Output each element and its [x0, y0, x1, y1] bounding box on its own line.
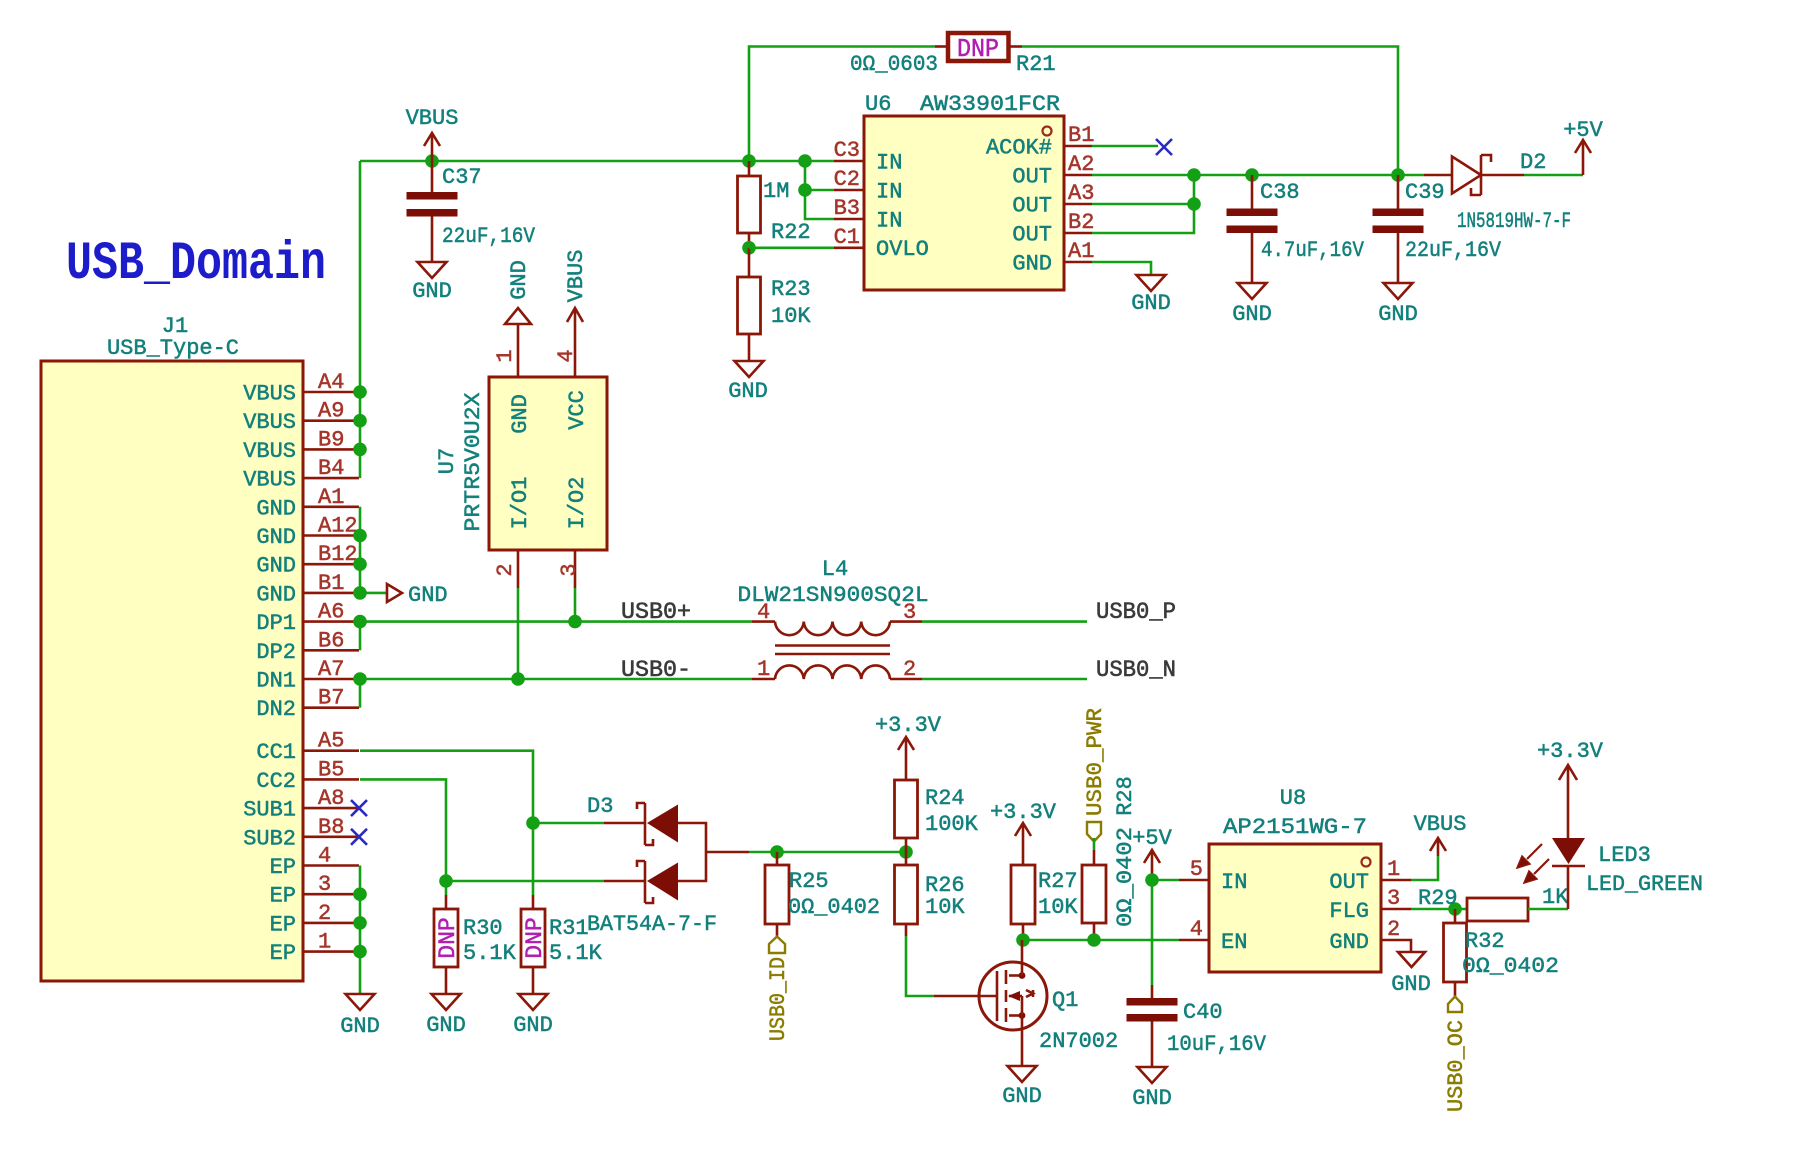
hierarchical label USB0_ID	[769, 937, 785, 954]
svg-text:4.7uF,16V: 4.7uF,16V	[1261, 238, 1365, 263]
svg-text:FLG: FLG	[1329, 899, 1369, 924]
svg-text:EP: EP	[270, 884, 296, 909]
svg-text:GND: GND	[508, 394, 533, 434]
J1 pin B8 (SUB2)	[303, 835, 359, 838]
ground R30	[432, 994, 461, 1010]
svg-text:B2: B2	[1068, 210, 1094, 235]
junction GND at A12	[353, 529, 367, 543]
svg-text:22uF,16V: 22uF,16V	[1405, 238, 1502, 263]
svg-text:GND: GND	[256, 582, 296, 607]
resistor R32 0ohm 0402	[1444, 909, 1560, 997]
D3 common anode	[678, 823, 706, 881]
power flag VBUS at U8 OUT	[1437, 838, 1440, 856]
ground R31	[519, 994, 548, 1010]
wire USB0_N	[922, 678, 1087, 681]
U8 pin 4 EN	[1179, 939, 1209, 942]
D3 bottom diode	[604, 880, 645, 883]
svg-text:+3.3V: +3.3V	[1537, 739, 1604, 764]
power flag VBUS at U7 pin4	[567, 308, 583, 322]
resistor R27 10K	[1011, 865, 1078, 940]
svg-text:SUB2: SUB2	[243, 826, 296, 851]
svg-text:BAT54A-7-F: BAT54A-7-F	[587, 912, 717, 937]
svg-text:C38: C38	[1260, 180, 1300, 205]
wire OUT B2	[1092, 175, 1194, 233]
svg-text:CC2: CC2	[256, 769, 296, 794]
J1 pin B4 (VBUS)	[303, 477, 359, 480]
L4 pin 3	[890, 620, 922, 623]
J1 pin A5 (CC1)	[303, 749, 359, 752]
power flag +3.3V at R27	[1022, 823, 1025, 865]
junction OVLO	[742, 241, 756, 255]
svg-text:B4: B4	[318, 456, 344, 481]
wire OUT bus	[1092, 174, 1424, 177]
svg-text:10K: 10K	[925, 895, 965, 920]
svg-text:DN2: DN2	[256, 697, 296, 722]
svg-text:4: 4	[318, 844, 331, 869]
junction CC2 branch	[439, 874, 453, 888]
wire OUT A3	[1092, 203, 1194, 206]
svg-text:GND: GND	[1391, 972, 1431, 997]
diode D2 1N5819HW-7-F	[1424, 150, 1571, 234]
svg-text:3: 3	[1387, 886, 1400, 911]
wire D3 common to R24/R26	[749, 851, 906, 854]
U6 pin A1 GND	[1064, 261, 1092, 264]
svg-text:R25: R25	[789, 869, 829, 894]
wire ACOK# to no-connect	[1092, 145, 1158, 148]
LED LED3 LED_GREEN	[1517, 767, 1703, 909]
wire IN C2/B3 feed	[805, 161, 834, 219]
svg-text:IN: IN	[876, 180, 902, 205]
wire OVLO	[749, 247, 834, 250]
U7 pin 2 I/O1	[517, 550, 520, 588]
svg-text:GND: GND	[412, 279, 452, 304]
wire to +5V	[1524, 174, 1583, 177]
svg-text:R27: R27	[1038, 869, 1078, 894]
hierarchical label USB0_PWR	[1087, 822, 1101, 842]
junction R24/R26	[899, 845, 913, 859]
svg-text:4: 4	[1190, 917, 1203, 942]
svg-text:AP2151WG-7: AP2151WG-7	[1223, 815, 1367, 840]
svg-text:OUT: OUT	[1012, 194, 1052, 219]
connector J1 USB_Type-C	[41, 314, 359, 981]
wire FLG	[1411, 908, 1467, 911]
wire OUT to VBUS	[1411, 856, 1438, 880]
U7 pin 4 VCC	[574, 308, 577, 377]
wire CC1	[360, 751, 533, 895]
wire GND vertical J1 pins A1/A12/B12/B1	[359, 507, 362, 593]
junction OUT C38	[1245, 168, 1259, 182]
svg-text:B1: B1	[318, 571, 344, 596]
svg-text:VBUS: VBUS	[406, 106, 459, 131]
wire R26 to Q1 gate	[906, 936, 934, 996]
power flag +5V at D2	[1582, 140, 1585, 175]
junction USB0+ at U7 pin3	[568, 615, 582, 629]
wire CC2	[360, 779, 446, 895]
wire USB0_P	[922, 620, 1087, 623]
svg-text:USB0+: USB0+	[621, 599, 691, 626]
resistor R22 1M	[738, 161, 811, 248]
svg-text:GND: GND	[426, 1013, 466, 1038]
svg-text:D3: D3	[587, 794, 613, 819]
svg-text:B7: B7	[318, 686, 344, 711]
svg-text:DP1: DP1	[256, 611, 296, 636]
svg-text:SUB1: SUB1	[243, 798, 296, 823]
svg-text:5.1K: 5.1K	[463, 941, 517, 966]
svg-text:5: 5	[1190, 857, 1203, 882]
ground C40	[1138, 1067, 1167, 1083]
wire VBUS horizontal to U6	[360, 160, 834, 163]
U8 pin 5 IN	[1179, 879, 1209, 882]
svg-text:GND: GND	[340, 1014, 380, 1039]
no-connect X at ACOK#	[1156, 139, 1172, 155]
ground R23	[735, 361, 764, 377]
J1 pin B9 (VBUS)	[303, 448, 359, 451]
wire DP1/DP2 join	[359, 622, 362, 651]
svg-text:USB0_N: USB0_N	[1096, 657, 1176, 684]
junction EP1	[353, 945, 367, 959]
svg-text:R31: R31	[549, 916, 589, 941]
svg-text:CC1: CC1	[256, 740, 296, 765]
hierarchical label USB0_OC	[1448, 997, 1462, 1013]
J1 pin B5 (CC2)	[303, 778, 359, 781]
svg-text:DN1: DN1	[256, 669, 296, 694]
svg-text:EP: EP	[270, 941, 296, 966]
junction +5V/IN	[1145, 873, 1159, 887]
svg-text:0Ω_0402: 0Ω_0402	[788, 895, 880, 920]
svg-text:VBUS: VBUS	[243, 439, 296, 464]
L4 winding top	[775, 622, 890, 636]
svg-text:VBUS: VBUS	[243, 410, 296, 435]
junction OUT A3	[1187, 197, 1201, 211]
svg-text:EP: EP	[270, 912, 296, 937]
ground J1 EP	[346, 994, 375, 1010]
wire USB0+	[360, 620, 752, 623]
J1 pin 4 (EP)	[303, 864, 359, 867]
wire CC2 to D3 bottom	[446, 880, 604, 883]
svg-text:R32: R32	[1465, 929, 1505, 954]
svg-text:GND: GND	[1002, 1084, 1042, 1109]
svg-text:+5V: +5V	[1563, 118, 1603, 143]
svg-text:GND: GND	[1329, 930, 1369, 955]
svg-text:U8: U8	[1280, 786, 1306, 811]
junction EP3	[353, 887, 367, 901]
U6 pin B3 IN	[834, 218, 864, 221]
svg-text:USB0_OC: USB0_OC	[1444, 1020, 1469, 1112]
junction loop left	[742, 154, 756, 168]
svg-text:R30: R30	[463, 916, 503, 941]
svg-text:0Ω_0603: 0Ω_0603	[850, 52, 938, 77]
J1 pin 2 (EP)	[303, 922, 359, 925]
svg-text:I/O2: I/O2	[565, 477, 590, 530]
svg-text:A1: A1	[1068, 239, 1094, 264]
no-connect X at SUB1 A8	[351, 800, 367, 816]
wire CC1 to D3 top	[533, 822, 604, 825]
svg-text:GND: GND	[1378, 302, 1418, 327]
J1 pin A12 (GND)	[303, 534, 359, 537]
svg-text:10K: 10K	[1038, 895, 1078, 920]
svg-text:A2: A2	[1068, 152, 1094, 177]
svg-text:I/O1: I/O1	[508, 477, 533, 530]
power flag +5V	[1151, 850, 1154, 877]
svg-text:B3: B3	[834, 196, 860, 221]
U6 pin C3 IN	[834, 160, 864, 163]
svg-text:A4: A4	[318, 370, 344, 395]
J1 pin 3 (EP)	[303, 893, 359, 896]
svg-text:VCC: VCC	[565, 390, 590, 430]
power flag +3.3V at LED3	[1559, 765, 1577, 780]
resistor R26 10K	[895, 852, 966, 936]
svg-text:R24: R24	[925, 786, 965, 811]
resistor R23 10K	[738, 248, 812, 361]
wire USB0-	[360, 678, 752, 681]
svg-text:2: 2	[493, 563, 518, 576]
svg-text:GND: GND	[1131, 291, 1171, 316]
wire U6 GND pin to ground	[1092, 262, 1151, 275]
svg-text:VBUS: VBUS	[564, 250, 589, 303]
wire EP pins chain	[359, 866, 362, 995]
dual diode D3 BAT54A-7-F	[587, 794, 749, 937]
svg-text:1N5819HW-7-F: 1N5819HW-7-F	[1457, 209, 1571, 234]
U6 pin A2 OUT	[1064, 174, 1092, 177]
svg-text:U6: U6	[865, 92, 891, 117]
svg-text:DNP: DNP	[435, 917, 461, 958]
svg-text:VBUS: VBUS	[243, 468, 296, 493]
GND net flag at J1.B1	[387, 584, 402, 602]
svg-text:USB0_PWR: USB0_PWR	[1083, 708, 1108, 816]
svg-text:1K: 1K	[1542, 885, 1569, 910]
power flag GND at U7 pin1	[505, 308, 531, 324]
junction OUT A2/A3	[1187, 168, 1201, 182]
ground C38	[1238, 283, 1267, 299]
svg-text:+3.3V: +3.3V	[990, 800, 1057, 825]
svg-text:AW33901FCR: AW33901FCR	[920, 92, 1060, 117]
svg-text:DNP: DNP	[522, 917, 548, 958]
svg-text:10K: 10K	[771, 304, 811, 329]
junction R27/Q1	[1016, 933, 1030, 947]
svg-text:DNP: DNP	[957, 34, 999, 64]
svg-text:A5: A5	[318, 729, 344, 754]
svg-text:4: 4	[757, 600, 770, 625]
ground U6	[1137, 275, 1166, 291]
resistor R25 0ohm 0402	[765, 852, 880, 937]
U6 pin A3 OUT	[1064, 203, 1092, 206]
wire +5V to IN and C40	[1151, 877, 1154, 985]
svg-text:1: 1	[1387, 857, 1400, 882]
svg-text:L4: L4	[822, 557, 848, 582]
svg-text:B12: B12	[318, 542, 358, 567]
svg-text:DP2: DP2	[256, 640, 296, 665]
svg-text:22uF,16V: 22uF,16V	[442, 224, 536, 249]
J1 pin A6 (DP1)	[303, 620, 359, 623]
junction CC1 branch	[526, 816, 540, 830]
L4 pin 4	[752, 620, 775, 623]
svg-text:USB_Type-C: USB_Type-C	[107, 336, 239, 361]
svg-text:A6: A6	[318, 600, 344, 625]
IC U7 PRTR5V0U2X	[435, 308, 607, 588]
junction at C3 wire	[798, 154, 812, 168]
junction VBUS at A4	[353, 385, 367, 399]
svg-text:1: 1	[318, 930, 331, 955]
svg-text:R28: R28	[1113, 776, 1138, 816]
power flag +3.3V at R24	[905, 737, 908, 780]
svg-text:R29: R29	[1418, 886, 1458, 911]
resistor R21 0ohm 0603 DNP	[850, 33, 1056, 77]
svg-text:B8: B8	[318, 815, 344, 840]
L4 pin 1	[752, 678, 775, 681]
J1 pin B7 (DN2)	[303, 706, 359, 709]
junction GND at B1	[353, 586, 367, 600]
junction DN at A7	[353, 672, 367, 686]
J1 pin A1 (GND)	[303, 505, 359, 508]
svg-text:VBUS: VBUS	[1414, 812, 1467, 837]
capacitor C39 22uF	[1373, 175, 1502, 283]
U6 pin C2 IN	[834, 189, 864, 192]
ground C37	[418, 262, 447, 278]
wire DN1/DN2 join	[359, 679, 362, 708]
J1 pin B12 (GND)	[303, 563, 359, 566]
svg-text:+5V: +5V	[1132, 826, 1172, 851]
svg-text:10uF,16V: 10uF,16V	[1167, 1032, 1267, 1057]
svg-text:D2: D2	[1520, 150, 1546, 175]
svg-text:R22: R22	[771, 220, 811, 245]
U8 pin 1 OUT	[1381, 879, 1411, 882]
svg-text:LED_GREEN: LED_GREEN	[1586, 872, 1703, 897]
svg-text:1: 1	[493, 349, 518, 362]
wire U7 pin3 to USB0+	[574, 588, 577, 622]
LED3 emission arrows	[1517, 844, 1549, 883]
svg-text:3: 3	[318, 872, 331, 897]
transistor Q1 2N7002	[934, 940, 1118, 1066]
J1 pin B1 (GND)	[303, 592, 359, 595]
svg-text:GND: GND	[513, 1013, 553, 1038]
svg-text:GND: GND	[408, 583, 448, 608]
svg-text:OVLO: OVLO	[876, 237, 929, 262]
svg-text:C40: C40	[1183, 1000, 1223, 1025]
svg-text:A12: A12	[318, 514, 358, 539]
junction R25	[770, 845, 784, 859]
svg-text:2: 2	[1387, 917, 1400, 942]
svg-text:VBUS: VBUS	[243, 382, 296, 407]
svg-text:A8: A8	[318, 786, 344, 811]
J1 pin A8 (SUB1)	[303, 807, 359, 810]
J1 pin B6 (DP2)	[303, 649, 359, 652]
svg-text:A9: A9	[318, 399, 344, 424]
svg-text:OUT: OUT	[1012, 223, 1052, 248]
svg-text:B1: B1	[1068, 123, 1094, 148]
junction GND at B12	[353, 557, 367, 571]
L4 pin 2	[890, 678, 922, 681]
svg-text:A7: A7	[318, 657, 344, 682]
svg-text:EN: EN	[1221, 930, 1247, 955]
ground Q1	[1008, 1066, 1037, 1082]
svg-text:C2: C2	[834, 167, 860, 192]
svg-text:5.1K: 5.1K	[549, 941, 603, 966]
svg-text:1M: 1M	[763, 179, 789, 204]
svg-text:USB_Domain: USB_Domain	[66, 234, 326, 295]
junction FLG/R32	[1448, 902, 1462, 916]
resistor R24 100K	[895, 780, 979, 852]
svg-text:1: 1	[757, 657, 770, 682]
svg-text:USB0-: USB0-	[621, 657, 691, 684]
svg-text:2: 2	[318, 901, 331, 926]
svg-text:IN: IN	[876, 209, 902, 234]
U6 pin C1 OVLO	[834, 247, 864, 250]
svg-text:B5: B5	[318, 757, 344, 782]
U6 pin B1 ACOK#	[1064, 145, 1092, 148]
svg-text:OUT: OUT	[1012, 165, 1052, 190]
svg-text:GND: GND	[256, 554, 296, 579]
capacitor C38 4.7uF	[1227, 175, 1365, 283]
svg-text:A1: A1	[318, 485, 344, 510]
IC U6 AW33901FCR	[834, 92, 1095, 290]
capacitor C40 10uF	[1127, 985, 1267, 1067]
svg-text:GND: GND	[507, 260, 532, 300]
resistor R29 1K	[1418, 885, 1569, 921]
U6 pin B2 OUT	[1064, 232, 1092, 235]
junction DP at A6	[353, 615, 367, 629]
J1 pin A4 (VBUS)	[303, 391, 359, 394]
svg-text:IN: IN	[1221, 870, 1247, 895]
U8 pin 2 GND	[1381, 940, 1411, 952]
svg-text:GND: GND	[728, 379, 768, 404]
ground U8	[1398, 952, 1425, 967]
IC U8 AP2151WG-7	[1179, 786, 1411, 972]
ground C39	[1384, 283, 1413, 299]
svg-text:IN: IN	[876, 151, 902, 176]
wire VBUS vertical J1 pins A4/A9/B9/B4	[359, 161, 362, 478]
svg-text:GND: GND	[256, 496, 296, 521]
L4 core	[775, 644, 890, 647]
svg-text:0Ω_0402: 0Ω_0402	[1462, 954, 1559, 979]
wire U7 pin2 to USB0-	[517, 588, 520, 679]
junction at C2 wire	[798, 183, 812, 197]
capacitor C37	[407, 161, 536, 262]
svg-text:GND: GND	[1132, 1086, 1172, 1111]
resistor R28 0ohm 0402	[1082, 776, 1138, 940]
svg-text:+3.3V: +3.3V	[875, 713, 942, 738]
J1 pin A9 (VBUS)	[303, 419, 359, 422]
svg-text:LED3: LED3	[1598, 843, 1651, 868]
svg-text:R21: R21	[1016, 52, 1056, 77]
L4 winding bottom	[775, 665, 890, 679]
wire R21 bypass loop	[749, 47, 935, 162]
svg-text:2N7002: 2N7002	[1039, 1029, 1118, 1054]
U7 pin 3 I/O2	[574, 550, 577, 588]
svg-text:USB0_P: USB0_P	[1096, 599, 1176, 626]
svg-text:C39: C39	[1405, 180, 1445, 205]
wire EN net	[1023, 939, 1179, 942]
svg-text:GND: GND	[1012, 252, 1052, 277]
junction VBUS at A9	[353, 414, 367, 428]
svg-text:3: 3	[557, 563, 582, 576]
svg-text:B9: B9	[318, 427, 344, 452]
U8 pin 3 FLG	[1381, 908, 1411, 911]
svg-text:EP: EP	[270, 855, 296, 880]
resistor R31 5.1K DNP	[521, 895, 603, 994]
svg-text:GND: GND	[1232, 302, 1272, 327]
svg-text:USB0_ID: USB0_ID	[766, 957, 791, 1041]
resistor R30 5.1K DNP	[434, 895, 517, 994]
power flag VBUS at C37	[431, 133, 434, 161]
svg-text:2: 2	[903, 657, 916, 682]
junction OUT C39	[1391, 168, 1405, 182]
svg-text:PRTR5V0U2X: PRTR5V0U2X	[461, 393, 486, 532]
svg-text:4: 4	[554, 349, 579, 362]
svg-text:3: 3	[903, 600, 916, 625]
svg-text:R23: R23	[771, 277, 811, 302]
junction VBUS at B9	[353, 443, 367, 457]
no-connect X at SUB2 B8	[351, 829, 367, 845]
